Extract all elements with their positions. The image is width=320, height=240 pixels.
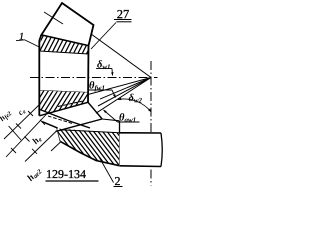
- dashed hidden tip (falling): [48, 116, 74, 124]
- gear1 left edge: [38, 41, 40, 116]
- gear2 hub white part: [120, 133, 162, 167]
- tick marks ray2: [28, 111, 33, 116]
- gear2 right edge curved: [161, 133, 162, 167]
- axis gear 1 (horizontal dash-dot centerline): [30, 77, 158, 79]
- fan line F3: [100, 78, 151, 100]
- gear1 lower rim hatched band: [39, 91, 88, 116]
- gear1 left bevel: [39, 35, 41, 41]
- gear2 bottom boundary: [61, 142, 121, 166]
- tick mark ray3: [32, 149, 37, 154]
- dimension ray 1: [6, 112, 49, 158]
- band top edge (tooth bottom): [41, 35, 88, 46]
- tooth centerline dash gear 1: [44, 12, 63, 24]
- gear2 tip line visible (falling): [39, 109, 91, 128]
- gear2 hub bottom edge: [120, 165, 161, 168]
- fan line F5 (pitch line): [96, 78, 151, 114]
- gear2 rim/hub boundary vertical: [119, 133, 121, 166]
- gear2 top edge B4: [60, 130, 120, 133]
- dashed hidden tip (rising, right): [58, 101, 84, 107]
- svg-text:2: 2: [114, 174, 120, 188]
- gear1 body: [39, 51, 88, 93]
- gear1 body bottom edge: [39, 91, 88, 93]
- gear1 root line R1: [39, 102, 88, 116]
- gear1 upper rim hatched band: [39, 35, 88, 54]
- gear2 notch vertical: [119, 121, 121, 133]
- centerline across body: [30, 77, 95, 79]
- dimension ray 4 short: [51, 142, 61, 151]
- svg-text:1: 1: [19, 32, 24, 43]
- gear2 flank B3: [42, 122, 61, 142]
- svg-text:hae2: hae2: [26, 165, 44, 183]
- fan line F2: [88, 78, 151, 95]
- svg-text:δw1: δw1: [97, 60, 111, 72]
- svg-text:129-134: 129-134: [46, 167, 86, 181]
- gear2 root edge to notch: [102, 119, 120, 121]
- gear1 body top edge: [39, 51, 88, 54]
- dimension ray 3: [25, 131, 57, 162]
- pitch cone line upper (apex to back cone pitch point): [90, 33, 151, 78]
- gear1 upper tooth: [41, 3, 93, 46]
- svg-text:hfe2: hfe2: [0, 108, 13, 124]
- gear2 hub top edge: [120, 132, 162, 134]
- right flank: [88, 102, 102, 119]
- gear2 tooth region hatched: [57, 129, 120, 166]
- dimension ray 2: [4, 104, 40, 139]
- tick marks ray1: [40, 120, 45, 125]
- fan line F4: [98, 78, 151, 107]
- gear2 tip/top line A3: [56, 119, 103, 132]
- extension segment lower-left: [9, 126, 21, 140]
- axis gear 2 (vertical dash-dot centerline): [150, 61, 152, 186]
- svg-text:ce: ce: [16, 106, 28, 118]
- gear1 right edge: [87, 46, 90, 103]
